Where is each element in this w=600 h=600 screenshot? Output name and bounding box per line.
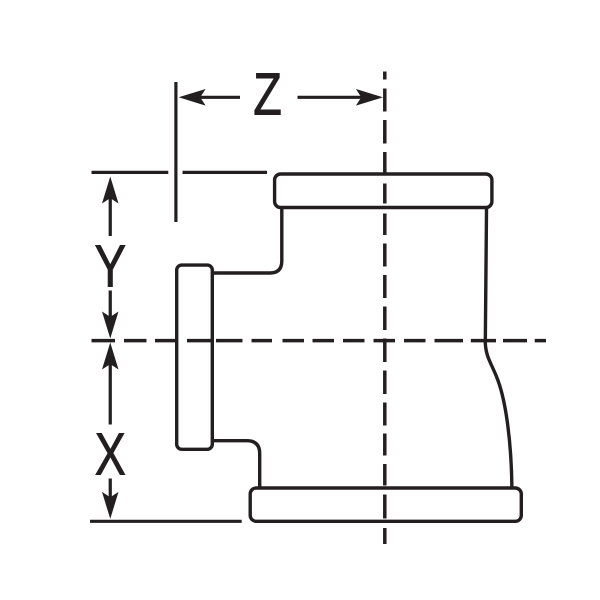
Y dimension line — [109, 194, 112, 320]
top extension line (Y top reference) — [92, 171, 268, 174]
X dimension line — [109, 360, 112, 500]
svg-text:Z: Z — [253, 62, 282, 128]
bottom extension line (X bottom reference) — [90, 520, 242, 523]
svg-text:Y: Y — [94, 234, 126, 300]
vertical dashed centerline — [383, 72, 387, 545]
X down arrowhead — [102, 492, 119, 519]
tee body outline — [212, 200, 512, 506]
svg-text:X: X — [95, 422, 126, 488]
X up arrowhead — [102, 343, 119, 370]
Y down arrowhead — [102, 312, 119, 339]
Z dimension line — [196, 96, 365, 99]
left socket band — [177, 265, 213, 449]
bottom socket band — [250, 488, 521, 521]
Z left arrowhead — [179, 89, 206, 106]
Y up arrowhead — [102, 177, 119, 204]
vertical extension line (left face, Z reference) — [174, 82, 177, 222]
Z right arrowhead — [356, 89, 383, 106]
horizontal dashed centerline — [92, 339, 547, 343]
top socket band — [275, 174, 492, 208]
